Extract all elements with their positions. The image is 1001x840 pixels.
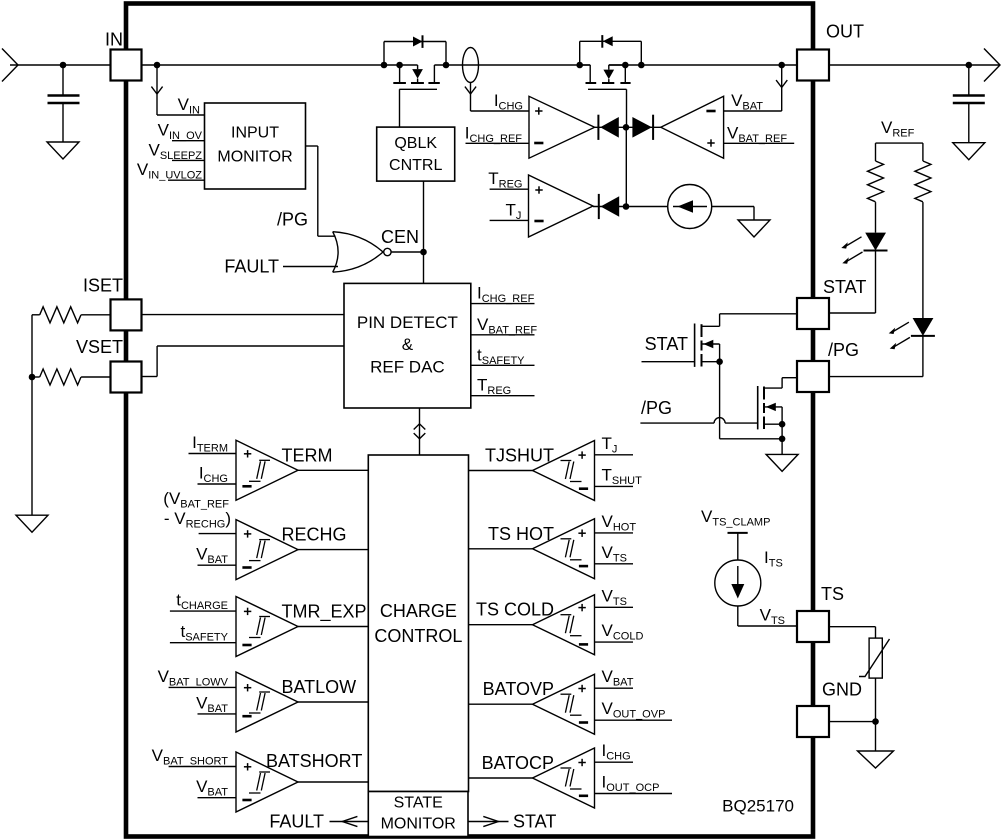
wire top rail Q1 to Q2 (434, 64, 590, 66)
pin STAT (797, 298, 829, 329)
svg-text:QBLK: QBLK (394, 135, 437, 152)
wire VBAT tap down (781, 65, 783, 111)
comparator TERM (236, 440, 298, 500)
pin TERM input 2 (198, 483, 237, 485)
svg-text:REF DAC: REF DAC (370, 358, 445, 377)
wire BATOVP output (469, 703, 533, 705)
wire current source to ground (712, 206, 754, 208)
LED D6 STAT (865, 233, 886, 251)
svg-text:VSET: VSET (76, 337, 123, 357)
LED D7 PG (913, 318, 934, 336)
op-amp A3 TREG (529, 175, 594, 237)
pin BATOCP input 1 (595, 761, 634, 763)
svg-text:/PG: /PG (828, 340, 859, 360)
op-amp A1 ICHG (529, 96, 595, 158)
comparator BATOVP (533, 674, 595, 734)
node CEN (420, 249, 427, 256)
svg-text:CHARGE: CHARGE (380, 601, 457, 621)
pin PG (797, 361, 829, 392)
wire top rail Q2 to OUT right (609, 64, 999, 66)
block STATE MONITOR (368, 792, 468, 837)
wire Q4 source down (781, 407, 783, 455)
svg-text:OUT: OUT (826, 22, 864, 42)
gate NOR U2 (333, 232, 338, 273)
svg-text:TS COLD: TS COLD (476, 600, 554, 620)
pin VBAT_REF out (471, 334, 535, 336)
node thermistor ground junction (872, 718, 879, 725)
wire GND pin to ground (829, 721, 876, 723)
input arrow left (2, 49, 18, 82)
comparator TJSHUT (533, 441, 595, 501)
svg-text:RECHG: RECHG (282, 525, 347, 545)
wire ICHG sense to comparator (470, 83, 472, 112)
comparator TS COLD (533, 595, 595, 655)
transistor Q1 top diode D1 (383, 42, 385, 66)
comparator RECHG (236, 520, 298, 580)
svg-text:STAT: STAT (645, 334, 688, 354)
pin BATOCP input 2 (595, 793, 673, 795)
node diode junction B (623, 203, 630, 210)
wire current source to TS pin (737, 606, 739, 626)
IC boundary BQ25170 (126, 4, 813, 837)
svg-text:STAT: STAT (513, 811, 556, 831)
transistor Q4 PG NMOS (757, 386, 759, 429)
svg-text:BATOVP: BATOVP (483, 679, 554, 699)
wire TS to thermistor (829, 626, 876, 628)
wire Q1 gate (399, 88, 437, 90)
pin ISET (111, 299, 142, 330)
pin TERM input 1 (189, 453, 237, 455)
wire TMR_EXP output (298, 626, 368, 628)
pin TS COLD input 1 (595, 606, 634, 608)
wire Q3 source down (719, 344, 721, 439)
wire STAT out (468, 821, 509, 823)
thermistor RT1 (869, 638, 882, 678)
diode D3 (595, 126, 661, 128)
wire TS HOT output (469, 548, 533, 550)
pin IN (111, 50, 142, 81)
wire TJSHUT output (469, 470, 533, 472)
wire STAT gate (642, 361, 695, 363)
svg-text:&: & (402, 335, 414, 354)
pin BATSHORT input 2 (198, 797, 237, 799)
wire TS COLD output (469, 624, 533, 626)
arrow FAULT left (342, 816, 357, 826)
ground ISET VSET (16, 515, 48, 532)
pin BATLOW input 2 (198, 713, 237, 715)
pin BATLOW input 1 (169, 686, 236, 688)
wire ISET to pin detect (142, 314, 345, 316)
pin tSAFETY out (471, 364, 535, 366)
pin VSET (111, 362, 142, 393)
transistor Q2 top diode D2 (579, 41, 581, 65)
pin BATSHORT input 1 (169, 766, 236, 768)
wire thermistor to ground (875, 678, 877, 751)
svg-text:TJSHUT: TJSHUT (485, 446, 554, 466)
current sense loop (463, 48, 479, 83)
pin ICHG_REF stub (466, 142, 530, 144)
wire VREF bracket (876, 142, 923, 144)
resistor R4 (915, 161, 931, 202)
svg-text:STAT: STAT (823, 277, 866, 297)
pin OUT (797, 50, 829, 81)
wire junction B to current source (626, 206, 668, 208)
wire RECHG output (298, 549, 368, 551)
svg-text:TMR_EXP: TMR_EXP (282, 602, 367, 623)
pin RECHG input 2 (198, 564, 237, 566)
capacitor output (968, 65, 970, 96)
wire TERM output (298, 469, 368, 471)
svg-text:CNTRL: CNTRL (389, 157, 442, 174)
wire QBLK to pin detect (423, 181, 425, 283)
node Q1 right (443, 62, 450, 69)
node diode junction A (623, 124, 630, 131)
comparator BATLOW (236, 672, 298, 732)
block PIN DETECT REF DAC (344, 283, 471, 408)
wire BATLOW output (298, 701, 368, 703)
node Q2 right (638, 62, 645, 69)
svg-text:MONITOR: MONITOR (217, 149, 292, 166)
pin ICHG_REF out (471, 303, 535, 305)
pin TJSHUT input 1 (595, 454, 634, 456)
wire pin detect to charge control (419, 408, 421, 455)
pin VSLEEPZ stub (172, 159, 205, 161)
pin TMR_EXP input 1 (170, 610, 236, 612)
pin TREG out (471, 395, 535, 397)
pin TJSHUT input 2 (595, 485, 634, 487)
wire BATSHORT output (298, 781, 368, 783)
arrow STAT right (483, 816, 498, 826)
capacitor input (62, 65, 64, 96)
pin TMR_EXP input 2 (170, 642, 236, 644)
wire resistor ground rail (31, 315, 33, 515)
wire FAULT to NOR (283, 266, 338, 268)
block INPUT MONITOR (205, 103, 306, 189)
svg-text:TERM: TERM (282, 445, 333, 465)
pin VBAT_REF stub (724, 142, 795, 144)
pin RECHG input 1 (199, 533, 236, 535)
pin TREG stub (490, 188, 529, 190)
svg-text:/PG: /PG (277, 210, 308, 230)
svg-text:INPUT: INPUT (231, 125, 279, 142)
svg-text:BQ25170: BQ25170 (722, 797, 794, 816)
pin TJ stub (490, 219, 529, 221)
diode D5 (593, 206, 626, 208)
wire NOR output to CEN node (391, 251, 423, 253)
LED D7 emission arrows (892, 322, 909, 332)
node Q4 source (779, 421, 786, 428)
op-amp A2 VBAT (661, 96, 724, 158)
diode D4 (632, 117, 652, 138)
node resistor junction (29, 374, 36, 381)
arrow ICHG down (465, 87, 476, 94)
comparator TS HOT (533, 519, 595, 579)
svg-text:FAULT: FAULT (269, 811, 324, 831)
pin TS HOT input 2 (595, 563, 634, 565)
ground current source (738, 220, 770, 237)
arrow VIN down (151, 87, 162, 94)
wire junction A to B (625, 127, 627, 206)
pin GND (797, 706, 829, 737)
wire input monitor to NOR gate (306, 145, 318, 147)
svg-text:GND: GND (822, 680, 862, 700)
svg-text:BATSHORT: BATSHORT (266, 751, 362, 771)
node Q2 left (576, 62, 583, 69)
node Q2 body tap (622, 62, 629, 69)
pin BATOVP input 1 (595, 687, 634, 689)
wire Q3 to ground junction (720, 438, 783, 440)
ground input cap (47, 142, 79, 159)
svg-text:PIN DETECT: PIN DETECT (357, 313, 458, 332)
ground GND (858, 751, 894, 768)
svg-text:CEN: CEN (381, 227, 419, 247)
svg-text:CONTROL: CONTROL (374, 626, 462, 646)
node VBAT tap (778, 62, 785, 69)
pin TS (797, 611, 829, 642)
wire LED D7 to PG pin (922, 336, 924, 377)
pin TS COLD input 2 (595, 641, 634, 643)
node VIN tap (154, 62, 161, 69)
resistor R1 ISET (32, 314, 40, 316)
svg-text:MONITOR: MONITOR (381, 816, 456, 833)
wire BATOCP output (469, 777, 533, 779)
pin TS HOT input 1 (595, 532, 634, 534)
wire FAULT out (330, 821, 369, 823)
svg-text:/PG: /PG (641, 398, 672, 418)
node Q3 source (716, 358, 723, 365)
comparator TMR_EXP (236, 597, 298, 657)
wire top rail IN to FET Q1 (10, 64, 418, 66)
pin BATOVP input 2 (595, 719, 673, 721)
block CHARGE CONTROL (368, 455, 468, 792)
transistor Q2 PMOS body (580, 64, 591, 66)
output arrow right (984, 49, 1000, 82)
current source I2 ITS (715, 560, 761, 606)
resistor R2 VSET (32, 376, 40, 378)
transistor Q3 STAT NMOS (694, 324, 696, 367)
wire VIN tap to input monitor (156, 65, 158, 115)
node ground junction (779, 436, 786, 443)
ground Q3 Q4 (766, 454, 798, 471)
arrow bidirectional (414, 424, 426, 430)
svg-text:FAULT: FAULT (224, 256, 279, 276)
node OUT junction (966, 62, 973, 69)
node Q1 source tap (396, 62, 403, 69)
wire PG gate with hop (640, 422, 714, 424)
svg-text:IN: IN (105, 30, 123, 50)
pin VIN_OV stub (172, 140, 205, 142)
LED D6 emission arrows (845, 237, 862, 247)
wire VSET to pin detect (142, 376, 158, 378)
block QBLK CNTRL (377, 127, 455, 181)
wire VTS clamp bar (728, 532, 748, 534)
svg-text:BATLOW: BATLOW (282, 677, 357, 697)
node Q1 left (381, 62, 388, 69)
svg-text:ISET: ISET (83, 276, 123, 296)
svg-text:BATOCP: BATOCP (482, 753, 554, 773)
comparator BATSHORT (236, 752, 298, 812)
ground output cap (953, 143, 985, 160)
resistor R3 (868, 161, 884, 202)
current source I1 (668, 185, 712, 229)
wire LED D6 to STAT pin (875, 251, 877, 314)
comparator BATOCP (533, 748, 595, 808)
wire Q2 gate (588, 88, 627, 90)
svg-text:TS: TS (821, 584, 844, 604)
arrow VBAT down (776, 80, 787, 87)
svg-text:TS HOT: TS HOT (488, 524, 554, 544)
svg-text:STATE: STATE (394, 795, 443, 812)
pin VIN_UVLOZ stub (168, 179, 205, 181)
wire VBAT input (724, 110, 782, 112)
transistor Q1 PMOS body (399, 65, 401, 83)
node input junction (60, 62, 67, 69)
